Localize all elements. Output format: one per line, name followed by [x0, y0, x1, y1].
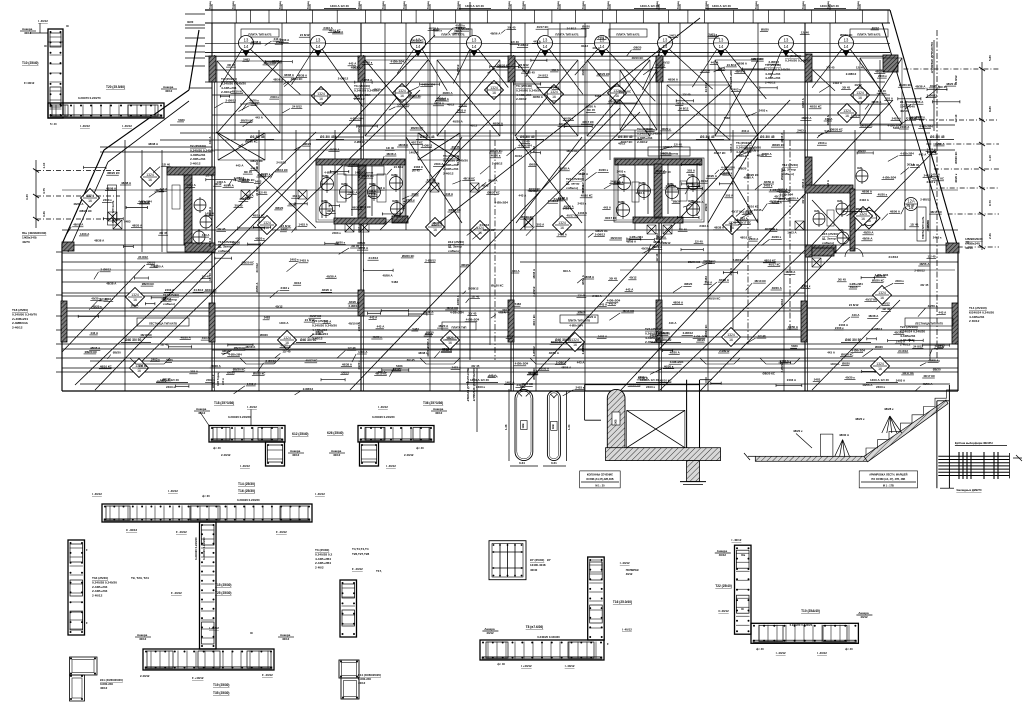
svg-text:5483: 5483: [581, 186, 585, 193]
svg-text:303 А: 303 А: [885, 96, 894, 100]
svg-text:24 8/12: 24 8/12: [519, 63, 529, 67]
svg-text:48/56 А: 48/56 А: [922, 382, 933, 386]
svg-text:ПЛИТА ТИП КА7Б: ПЛИТА ТИП КА7Б: [248, 32, 271, 36]
svg-text:Ø3 30/ 45: Ø3 30/ 45: [520, 135, 535, 139]
svg-text:48/10 КС: 48/10 КС: [926, 220, 930, 231]
svg-text:I -40/12: I -40/12: [240, 464, 250, 468]
svg-text:Т9, Т23, Т24: Т9, Т23, Т24: [131, 576, 149, 580]
svg-text:48/20 А: 48/20 А: [453, 119, 464, 123]
stair run detail: [755, 456, 867, 461]
svg-text:2-Ø8/12: 2-Ø8/12: [920, 198, 931, 202]
svg-text:14: 14: [844, 44, 849, 49]
svg-text:Ø8/20 КС: Ø8/20 КС: [840, 33, 853, 37]
svg-text:48/20 А: 48/20 А: [443, 91, 454, 95]
svg-text:2403 А: 2403 А: [900, 125, 910, 129]
svg-text:5483: 5483: [281, 228, 288, 232]
svg-text:2-Ø8/12: 2-Ø8/12: [595, 233, 606, 237]
svg-text:2-Ø8/12: 2-Ø8/12: [666, 184, 677, 188]
svg-text:2-Ø8/12: 2-Ø8/12: [581, 344, 585, 355]
svg-text:4-Ø8+2Ø4: 4-Ø8+2Ø4: [883, 176, 897, 180]
svg-text:5483: 5483: [595, 94, 602, 98]
svg-text:48/38 А: 48/38 А: [558, 196, 569, 200]
svg-text:40/12: 40/12: [860, 615, 868, 619]
svg-text:1324: 1324: [131, 293, 139, 297]
svg-text:303 А: 303 А: [324, 319, 333, 323]
svg-text:30/ 45: 30/ 45: [392, 367, 400, 371]
svg-text:Ø8/20: Ø8/20: [634, 46, 642, 50]
svg-text:40/20 к: 40/20 к: [357, 169, 361, 179]
svg-text:2-44В+2В4: 2-44В+2В4: [315, 561, 331, 565]
svg-text:12/ 40: 12/ 40: [578, 293, 586, 297]
detail vertical bar right: [340, 580, 357, 637]
svg-text:443 А: 443 А: [939, 311, 948, 315]
svg-text:1403 А: 1403 А: [409, 151, 419, 155]
svg-text:12/ 40: 12/ 40: [882, 307, 890, 311]
svg-text:443 А: 443 А: [603, 206, 612, 210]
svg-text:443 А: 443 А: [711, 60, 720, 64]
svg-text:0.240/28 0.2: 0.240/28 0.2: [315, 552, 332, 556]
svg-text:1КВ: 1КВ: [521, 423, 525, 428]
svg-text:5483: 5483: [709, 260, 716, 264]
svg-text:16: 16: [400, 94, 404, 98]
svg-text:48/10 КС: 48/10 КС: [529, 187, 542, 191]
svg-text:40/17 КС: 40/17 КС: [865, 297, 878, 301]
svg-text:40а: 40а: [741, 554, 746, 557]
svg-text:Σ -40/12: Σ -40/12: [352, 567, 363, 571]
svg-text:30/ 45: 30/ 45: [754, 208, 762, 212]
svg-text:Ø8/20 КС: Ø8/20 КС: [449, 208, 462, 212]
svg-text:16: 16: [560, 226, 564, 230]
svg-text:48/56 А: 48/56 А: [862, 237, 873, 241]
svg-text:Т3 (25/100): Т3 (25/100): [354, 84, 370, 88]
svg-text:24 8/12: 24 8/12: [709, 34, 719, 38]
svg-text:0.240/20 0.240/20: 0.240/20 0.240/20: [194, 537, 198, 560]
svg-text:40/20 к: 40/20 к: [599, 168, 609, 172]
svg-text:443 А: 443 А: [729, 268, 733, 275]
svg-text:Т26,Т27,Т28: Т26,Т27,Т28: [352, 552, 370, 556]
svg-text:48/20 А: 48/20 А: [446, 336, 457, 340]
svg-text:24 8/12: 24 8/12: [140, 200, 150, 204]
svg-text:Ø40 30/ 50: Ø40 30/ 50: [125, 338, 141, 342]
svg-text:48/10 КС: 48/10 КС: [930, 210, 943, 214]
svg-text:1403 А: 1403 А: [578, 211, 588, 215]
svg-text:48/38 А: 48/38 А: [560, 167, 571, 171]
svg-text:2+40Вх201: 2+40Вх201: [12, 317, 28, 321]
svg-text:24 8/12: 24 8/12: [138, 255, 148, 259]
svg-text:48/10 КС: 48/10 КС: [375, 372, 388, 376]
svg-text:1403 А: 1403 А: [635, 191, 645, 195]
svg-text:303 А: 303 А: [537, 223, 546, 227]
svg-text:Ø8/20 КС: Ø8/20 КС: [411, 38, 424, 42]
svg-text:4-Ø8+2Ø4: 4-Ø8+2Ø4: [350, 117, 364, 121]
svg-text:48/10 КС: 48/10 КС: [754, 279, 767, 283]
svg-text:1403 А 12/ 40: 1403 А 12/ 40: [330, 4, 349, 8]
svg-text:Торец: Торец: [278, 1, 282, 9]
svg-text:ф= 30: ф= 30: [202, 494, 210, 498]
svg-text:2-Ø8/12: 2-Ø8/12: [422, 143, 433, 147]
svg-text:48/10 КС: 48/10 КС: [253, 213, 266, 217]
svg-text:2-40/12: 2-40/12: [140, 674, 150, 678]
svg-text:40/12: 40/12: [481, 183, 489, 187]
svg-text:2-Ø8/12: 2-Ø8/12: [266, 359, 277, 363]
svg-text:24 8/12: 24 8/12: [898, 349, 908, 353]
svg-text:303 А: 303 А: [353, 66, 362, 70]
svg-text:48/20 А: 48/20 А: [661, 151, 672, 155]
svg-text:1403 А: 1403 А: [216, 180, 226, 184]
svg-text:443 А: 443 А: [551, 68, 560, 72]
svg-text:48/38 А: 48/38 А: [785, 270, 796, 274]
svg-text:40/20 к: 40/20 к: [373, 87, 383, 91]
svg-text:2-Ø8/12: 2-Ø8/12: [658, 331, 669, 335]
svg-text:2-Ø8/12: 2-Ø8/12: [914, 269, 925, 273]
svg-text:2-40/12: 2-40/12: [443, 172, 454, 176]
svg-text:0.34: 0.34: [519, 461, 525, 465]
svg-text:2403 к: 2403 к: [270, 95, 279, 99]
svg-text:Ø8/20: Ø8/20: [341, 370, 349, 374]
svg-text:4-Ø8+2Ø4: 4-Ø8+2Ø4: [324, 170, 338, 174]
svg-text:Т8 (25/100): Т8 (25/100): [785, 54, 801, 58]
svg-text:2403 к: 2403 к: [732, 88, 741, 92]
svg-text:Тб (25/100): Тб (25/100): [516, 84, 532, 88]
svg-text:12/ 40: 12/ 40: [386, 146, 394, 150]
detail T10/T20 top-left: [48, 29, 63, 118]
svg-text:1403 А: 1403 А: [833, 81, 843, 85]
svg-text:2403 А: 2403 А: [598, 334, 608, 338]
svg-text:24 8/12: 24 8/12: [480, 223, 490, 227]
svg-text:24 8/12: 24 8/12: [538, 74, 548, 78]
svg-text:Т10 (25А/40): Т10 (25А/40): [801, 609, 820, 613]
svg-text:Закладных ДИВ/70: Закладных ДИВ/70: [956, 488, 982, 492]
svg-text:40/12: 40/12: [275, 304, 283, 308]
svg-text:40/8 к: 40/8 к: [369, 183, 377, 186]
svg-text:Торец: Торец: [556, 1, 560, 9]
svg-text:4-40Вх204: 4-40Вх204: [190, 153, 206, 157]
svg-text:Ø8/20 КС: Ø8/20 КС: [362, 174, 375, 178]
svg-text:16: 16: [265, 226, 269, 230]
svg-text:соВесо): соВесо): [566, 186, 578, 190]
svg-text:2403 к: 2403 к: [646, 127, 655, 131]
svg-text:соВесо): соВесо): [218, 249, 230, 253]
svg-text:Ø8/20: Ø8/20: [275, 206, 283, 210]
svg-text:48/38 А: 48/38 А: [432, 221, 443, 225]
svg-text:5483: 5483: [825, 129, 832, 133]
svg-text:12/ 40: 12/ 40: [928, 254, 936, 258]
svg-text:14: 14: [543, 44, 548, 49]
svg-text:40/17 КС: 40/17 КС: [739, 220, 752, 224]
svg-text:I -40/12: I -40/12: [209, 626, 219, 630]
svg-text:2403 А: 2403 А: [414, 165, 424, 169]
svg-text:2403 А: 2403 А: [592, 294, 602, 298]
svg-text:40/20 к: 40/20 к: [845, 376, 855, 380]
svg-text:40/12: 40/12: [282, 637, 290, 641]
svg-text:1324: 1324: [856, 91, 864, 95]
svg-text:40/8: 40/8: [814, 210, 819, 213]
room lines near core A: [124, 140, 126, 391]
svg-text:40/20 к: 40/20 к: [641, 247, 651, 251]
svg-text:5483: 5483: [938, 343, 945, 347]
svg-text:1403 А: 1403 А: [348, 190, 358, 194]
svg-text:0.240/20 0.240/20: 0.240/20 0.240/20: [765, 67, 790, 71]
svg-text:1403 А: 1403 А: [780, 359, 790, 363]
svg-text:Ø40 30/ 50: Ø40 30/ 50: [555, 338, 571, 342]
svg-text:48/08 А: 48/08 А: [719, 278, 730, 282]
grid verticals: [211, 23, 213, 391]
svg-text:40/40: 40/40: [530, 568, 538, 572]
svg-text:ПО ОСЯМ (А4, 47), 47Б, 48Б: ПО ОСЯМ (А4, 47), 47Б, 48Б: [871, 478, 905, 481]
svg-text:48/08 А: 48/08 А: [456, 295, 460, 305]
svg-text:30/ 45: 30/ 45: [920, 283, 928, 287]
stair landing rebar: [938, 455, 1009, 457]
svg-text:48/56 А: 48/56 А: [654, 216, 665, 220]
svg-text:443 А: 443 А: [202, 336, 211, 340]
svg-text:Ø8/20: Ø8/20: [222, 349, 230, 353]
svg-text:2-40/12: 2-40/12: [221, 90, 232, 94]
svg-text:I +40/12: I +40/12: [521, 664, 532, 668]
svg-text:48/56 А: 48/56 А: [493, 121, 504, 125]
svg-text:40/8 к: 40/8 к: [688, 174, 696, 177]
svg-text:Ø8/20: Ø8/20: [684, 282, 692, 286]
svg-text:2403 к: 2403 к: [933, 235, 942, 239]
svg-text:12/ 40: 12/ 40: [682, 92, 690, 96]
svg-text:1403 А: 1403 А: [457, 109, 467, 113]
svg-text:4-44В+2В4: 4-44В+2В4: [315, 557, 331, 561]
svg-text:48/56 А: 48/56 А: [729, 222, 733, 232]
svg-text:13: 13: [663, 38, 668, 43]
svg-text:48/08 А: 48/08 А: [801, 98, 805, 108]
svg-text:48/38 А: 48/38 А: [826, 115, 830, 125]
svg-text:4-Ø8+2Ø4: 4-Ø8+2Ø4: [515, 362, 529, 366]
small crossed boxes: [345, 223, 354, 232]
svg-text:40/12: 40/12: [139, 637, 147, 641]
svg-text:Т16 (25.0/40): Т16 (25.0/40): [613, 600, 632, 604]
svg-text:14: 14: [719, 44, 724, 49]
svg-text:48/56 А: 48/56 А: [581, 275, 585, 285]
svg-text:Ø8/20 КС: Ø8/20 КС: [619, 90, 632, 94]
svg-text:ф= 40: ф= 40: [416, 446, 424, 450]
svg-text:303 А: 303 А: [425, 332, 434, 336]
svg-text:48/38 А: 48/38 А: [326, 274, 337, 278]
svg-text:Ø8/20 КС: Ø8/20 КС: [763, 372, 776, 376]
svg-text:2403 к: 2403 к: [797, 129, 806, 133]
svg-text:48/56 А: 48/56 А: [890, 210, 901, 214]
svg-text:12/ 40: 12/ 40: [758, 334, 766, 338]
svg-text:2-Ø8/12: 2-Ø8/12: [872, 327, 883, 331]
svg-text:0.240/20 0.240/20: 0.240/20 0.240/20: [790, 623, 813, 627]
svg-text:4-Ø8+2Ø4: 4-Ø8+2Ø4: [518, 144, 532, 148]
svg-text:40/8 к: 40/8 к: [618, 201, 626, 204]
svg-text:4-Ø8+2Ø4: 4-Ø8+2Ø4: [494, 200, 508, 204]
svg-text:48/56 А: 48/56 А: [668, 78, 679, 82]
svg-text:40/20 к: 40/20 к: [363, 60, 373, 64]
wall-slab section detail: [585, 384, 700, 386]
svg-text:48/30 А: 48/30 А: [839, 433, 850, 437]
svg-text:443 А: 443 А: [919, 152, 928, 156]
svg-text:Т2 (25/100): Т2 (25/100): [190, 144, 206, 148]
svg-text:24 8/12: 24 8/12: [394, 165, 404, 169]
svg-text:Т17,: Т17,: [376, 569, 382, 573]
svg-text:Торец: Торец: [231, 1, 235, 9]
svg-text:443 А: 443 А: [377, 325, 386, 329]
svg-text:Ø8/20 КС: Ø8/20 КС: [595, 229, 608, 233]
svg-text:2403 к: 2403 к: [927, 180, 936, 184]
svg-text:0.240/20 0.240/20: 0.240/20 0.240/20: [202, 537, 206, 560]
svg-text:443 А: 443 А: [445, 192, 454, 196]
svg-text:16: 16: [133, 298, 137, 302]
svg-text:4-40В+204: 4-40В+204: [765, 76, 781, 80]
svg-text:443 А: 443 А: [377, 186, 386, 190]
svg-text:0.240/20 0.240/20: 0.240/20 0.240/20: [237, 498, 260, 502]
svg-text:2-Ø8/12: 2-Ø8/12: [349, 162, 360, 166]
svg-text:5483: 5483: [354, 94, 361, 98]
svg-text:48/56 А: 48/56 А: [255, 283, 259, 293]
svg-text:1403 А 12/ 40: 1403 А 12/ 40: [465, 4, 484, 8]
svg-text:I -40/12: I -40/12: [732, 538, 742, 542]
svg-text:Т8 (в7.6/26): Т8 (в7.6/26): [526, 625, 544, 629]
svg-text:40/17 КС: 40/17 КС: [902, 371, 915, 375]
svg-text:12/ 40: 12/ 40: [954, 114, 958, 122]
svg-text:30/ 45: 30/ 45: [407, 358, 415, 362]
svg-text:40/12: 40/12: [288, 202, 296, 206]
svg-text:ф= 40: ф= 40: [213, 446, 221, 450]
svg-text:240 А: 240 А: [221, 378, 225, 385]
svg-text:40/17 КС: 40/17 КС: [532, 314, 536, 325]
svg-text:48/20 А: 48/20 А: [757, 154, 768, 158]
svg-text:13: 13: [784, 38, 789, 43]
svg-text:4-44Вх204: 4-44Вх204: [969, 315, 985, 319]
svg-text:I -40/12: I -40/12: [776, 651, 786, 655]
svg-text:12/ 40: 12/ 40: [100, 297, 108, 301]
svg-text:12/ 40: 12/ 40: [255, 162, 259, 170]
svg-text:Ø8/20 КС: Ø8/20 КС: [497, 64, 510, 68]
svg-text:2403 А: 2403 А: [208, 238, 212, 247]
svg-text:2-Ø8/12: 2-Ø8/12: [548, 199, 559, 203]
svg-text:С-40/12: С-40/12: [718, 609, 729, 613]
svg-text:4-Ø8+2Ø4: 4-Ø8+2Ø4: [670, 360, 684, 364]
svg-text:2403 к: 2403 к: [406, 198, 415, 202]
svg-text:2КВ: 2КВ: [614, 419, 618, 424]
svg-text:2-44В+204: 2-44В+204: [92, 585, 108, 589]
svg-text:Торец: Торец: [306, 1, 310, 9]
svg-text:4-Ø8+2Ø4: 4-Ø8+2Ø4: [875, 273, 889, 277]
svg-text:2403 А: 2403 А: [452, 366, 462, 370]
svg-text:Ø8/20 КС: Ø8/20 КС: [107, 171, 120, 175]
svg-text:I -40/12: I -40/12: [622, 628, 632, 632]
svg-text:40/8 к: 40/8 к: [392, 200, 400, 203]
svg-text:48/38 А: 48/38 А: [106, 281, 117, 285]
svg-text:4-Ø8+2Ø4: 4-Ø8+2Ø4: [569, 324, 583, 328]
svg-text:24 8/12: 24 8/12: [889, 255, 899, 259]
svg-text:ф= 40: ф= 40: [756, 647, 764, 651]
svg-text:48/20 А: 48/20 А: [707, 174, 718, 178]
svg-text:Ø8/20 КС: Ø8/20 КС: [597, 72, 610, 76]
svg-text:48/56 А: 48/56 А: [273, 78, 284, 82]
svg-text:М 1 : 20: М 1 : 20: [595, 484, 605, 487]
svg-text:2403 А: 2403 А: [517, 383, 527, 387]
svg-text:40/20 к: 40/20 к: [915, 115, 925, 119]
right dimension chains: [903, 68, 999, 70]
svg-text:2403 А: 2403 А: [488, 178, 498, 182]
svg-text:1403 А: 1403 А: [830, 362, 840, 366]
svg-text:Ø8/20 КС: Ø8/20 КС: [245, 140, 258, 144]
svg-text:ЛЕСТНИЧНЫЙ ПРОЛЕТ: ЛЕСТНИЧНЫЙ ПРОЛЕТ: [466, 368, 470, 402]
svg-text:24 8/12: 24 8/12: [704, 83, 708, 93]
svg-text:40/20 к: 40/20 к: [357, 360, 361, 370]
svg-text:40/20 к: 40/20 к: [772, 235, 782, 239]
svg-text:1403 А 12/ 40: 1403 А 12/ 40: [712, 4, 731, 8]
wall piers lower: [61, 301, 67, 342]
svg-text:40/20 к: 40/20 к: [878, 193, 888, 197]
svg-text:2403 к: 2403 к: [357, 224, 361, 233]
svg-text:12/ 40: 12/ 40: [160, 343, 168, 347]
svg-text:24 8/12: 24 8/12: [194, 288, 204, 292]
svg-text:16: 16: [88, 199, 92, 203]
svg-text:I -40/12: I -40/12: [80, 124, 90, 128]
svg-text:13: 13: [472, 38, 477, 43]
svg-text:14: 14: [600, 44, 605, 49]
detail T8/T16 L-left: [588, 557, 605, 640]
svg-text:40/12: 40/12: [581, 44, 589, 48]
svg-text:Торец: Торец: [507, 1, 511, 9]
svg-text:443 А: 443 А: [519, 194, 528, 198]
svg-text:443 А: 443 А: [370, 315, 379, 319]
svg-text:48/08 А: 48/08 А: [584, 275, 595, 279]
svg-text:443 А: 443 А: [626, 287, 635, 291]
svg-text:48/10 КС: 48/10 КС: [359, 205, 372, 209]
svg-text:2403 А: 2403 А: [427, 178, 437, 182]
svg-text:С -40/12: С -40/12: [126, 528, 137, 532]
marker diamond-circle: [858, 207, 880, 229]
svg-text:12/ 40: 12/ 40: [369, 192, 377, 196]
svg-text:40/8 к: 40/8 к: [619, 174, 627, 177]
svg-text:1403 А 12/ 40: 1403 А 12/ 40: [820, 4, 839, 8]
svg-text:1403 А 12/ 40: 1403 А 12/ 40: [470, 378, 489, 382]
svg-text:2-40/12: 2-40/12: [190, 162, 201, 166]
svg-text:2403 к: 2403 к: [924, 173, 933, 177]
svg-text:16: 16: [880, 296, 884, 300]
svg-text:40/20 к: 40/20 к: [661, 127, 671, 131]
svg-text:5483: 5483: [251, 102, 258, 106]
svg-text:5483: 5483: [255, 180, 262, 184]
svg-text:2403 А: 2403 А: [434, 162, 444, 166]
svg-text:соВесо): соВесо): [822, 241, 834, 245]
svg-text:2-Ø8/12: 2-Ø8/12: [719, 349, 730, 353]
svg-text:1.10: 1.10: [42, 162, 46, 168]
svg-text:2-Ø8/12: 2-Ø8/12: [780, 362, 784, 373]
svg-text:АРМИРОВКА ЛЕСТН. МАРШЕЙ: АРМИРОВКА ЛЕСТН. МАРШЕЙ: [869, 474, 907, 477]
svg-text:30/ 45: 30/ 45: [217, 227, 225, 231]
svg-text:Ø8/20 КС: Ø8/20 КС: [532, 368, 536, 380]
svg-text:30/ 45: 30/ 45: [939, 85, 947, 89]
svg-text:24 8/12: 24 8/12: [727, 63, 737, 67]
svg-text:14: 14: [416, 44, 421, 49]
capsule piles: [515, 389, 533, 460]
svg-text:48/56 А: 48/56 А: [561, 366, 572, 370]
svg-text:303 А: 303 А: [131, 304, 140, 308]
svg-text:48/20 А: 48/20 А: [132, 224, 143, 228]
svg-text:48/08 А: 48/08 А: [735, 70, 746, 74]
svg-text:40/12: 40/12: [435, 411, 443, 415]
svg-text:443 А: 443 А: [669, 321, 678, 325]
svg-text:1403 А: 1403 А: [558, 233, 568, 237]
svg-text:48/38 А: 48/38 А: [868, 314, 879, 318]
svg-text:48/08 А: 48/08 А: [737, 62, 748, 66]
svg-text:40/12: 40/12: [872, 26, 880, 30]
svg-text:16: 16: [729, 338, 733, 342]
svg-text:0.240/20 0.240/20: 0.240/20 0.240/20: [372, 415, 395, 419]
svg-text:16: 16: [861, 217, 865, 221]
svg-text:ПЛИТА ТИП КА7Б: ПЛИТА ТИП КА7Б: [616, 32, 639, 36]
wall corners mid: [62, 242, 74, 251]
